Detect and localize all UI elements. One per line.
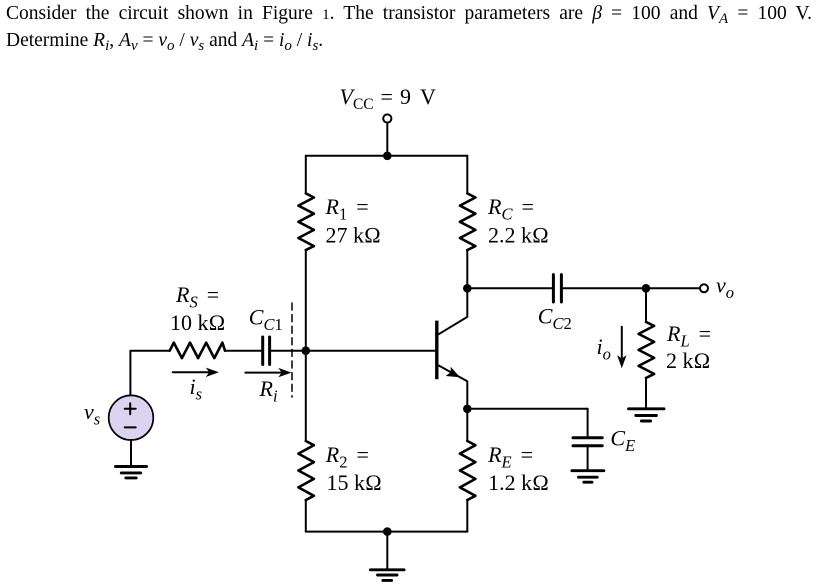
wire source bottom lead [130, 440, 132, 466]
transistor Q1 base bar [435, 321, 438, 380]
svg-text:CE: CE [610, 426, 635, 456]
ground source [116, 467, 147, 478]
capacitor CC2 [553, 275, 561, 302]
wire emitter rail to CE [467, 408, 587, 410]
svg-text:RS =: RS = [175, 282, 219, 312]
ground RL [629, 409, 665, 421]
svg-text:Ri: Ri [259, 376, 278, 406]
wire top rail [306, 155, 468, 157]
wire base node to R2 [305, 351, 307, 441]
ground bottom center [370, 570, 404, 581]
VCC terminal circle [383, 114, 391, 122]
svg-text:CC2: CC2 [538, 304, 572, 334]
vo terminal circle [700, 284, 708, 292]
svg-text:R1 =: R1 = [325, 194, 369, 224]
svg-text:RE =: RE = [487, 442, 533, 472]
transistor Q1 emitter arrow [446, 367, 460, 377]
source vs circle [109, 395, 154, 440]
source vs plus sign [125, 403, 136, 414]
wire CE bottom lead [587, 446, 589, 471]
svg-text:10 kΩ: 10 kΩ [170, 310, 225, 335]
node output junction dot [642, 284, 651, 293]
svg-text:RC =: RC = [487, 194, 534, 224]
svg-text:io: io [597, 334, 611, 364]
wire R1 top lead [305, 156, 307, 194]
wire collector to CC2 [467, 287, 553, 289]
svg-text:VCC=9V: VCC=9V [340, 84, 437, 113]
svg-text:2.2 kΩ: 2.2 kΩ [488, 223, 549, 248]
node VCC junction dot [383, 152, 392, 161]
dashed line Ri reference [291, 303, 293, 397]
wire RS to CC1 [225, 350, 263, 352]
arrow io [621, 327, 623, 358]
resistor R2 [298, 441, 314, 500]
wire emitter to RE [466, 409, 468, 441]
svg-text:2 kΩ: 2 kΩ [666, 348, 710, 373]
wire output node to vo terminal [646, 287, 700, 289]
wire RC bottom to collector node [466, 250, 468, 288]
wire VCC stem [386, 123, 388, 156]
capacitor CE [573, 438, 602, 446]
wire CC1 to base node [270, 350, 306, 352]
transistor Q1 collector line [439, 288, 468, 334]
resistor RS [170, 343, 225, 359]
svg-text:R2 =: R2 = [325, 442, 369, 472]
svg-text:RL =: RL = [666, 321, 711, 351]
svg-text:27 kΩ: 27 kΩ [326, 223, 381, 248]
wire RL bottom lead [645, 378, 647, 409]
ground CE [572, 471, 604, 483]
svg-text:1.2 kΩ: 1.2 kΩ [488, 470, 549, 495]
source vs minus sign [125, 426, 136, 428]
arrow is [173, 371, 209, 373]
svg-text:15 kΩ: 15 kΩ [327, 470, 382, 495]
problem statement text [6, 1, 812, 55]
wire RE bottom lead [466, 500, 468, 532]
wire R2 bottom lead [305, 500, 307, 532]
wire R1 bottom to base node [305, 250, 307, 351]
node base junction dot [302, 346, 311, 355]
wire source to RS corner [130, 351, 169, 396]
wire base [306, 350, 435, 352]
resistor RL [639, 322, 655, 378]
transistor Q1 emitter line [439, 365, 468, 408]
node bottom ground junction dot [383, 527, 392, 536]
svg-text:vo: vo [716, 273, 734, 303]
wire CC2 to output node [561, 287, 646, 289]
wire CE top lead [587, 409, 589, 438]
resistor R1 [298, 193, 314, 250]
resistor RE [460, 441, 476, 500]
wire ground stem [386, 532, 388, 570]
node collector junction dot [463, 284, 472, 293]
svg-text:CC1: CC1 [249, 305, 283, 335]
wire RL top lead [645, 288, 647, 322]
resistor RC [460, 193, 476, 250]
node emitter junction dot [463, 405, 472, 414]
capacitor CC1 [263, 337, 270, 365]
arrow Ri measuring [245, 372, 281, 374]
svg-text:is: is [190, 374, 203, 404]
svg-text:vs: vs [84, 399, 100, 429]
wire RC top lead [466, 156, 468, 194]
wire bottom rail [306, 531, 468, 533]
